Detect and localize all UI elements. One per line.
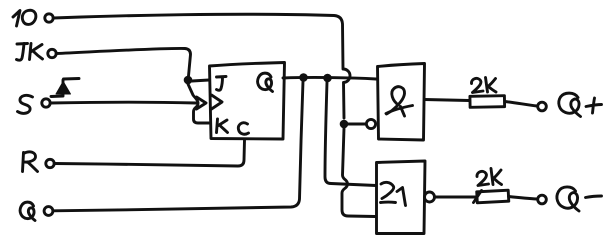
wire node A down to OR lower input (hops over OR upper wire) [342,128,375,217]
resistor R2 [477,190,509,203]
label 2k (lower) [477,169,502,186]
wire Q terminal to Q-output junction [53,81,303,211]
edge-trigger symbol above S wire [51,79,79,97]
terminal R [46,159,54,167]
junction dot JK node [184,76,193,85]
label 2k (upper) [471,78,496,93]
terminal Q bottom [44,207,53,216]
AND gate & symbol [386,87,413,116]
wire 10 input to vertical drop (hops over Q line) [53,14,350,118]
flip-flop U1 box [210,63,285,140]
junction dot Q line 2 [323,74,332,83]
label Q output (bottom left) [20,202,35,220]
wire AND output to resistor R1 [425,100,470,101]
flip-flop label K [217,119,228,133]
resistor R1 [470,96,505,108]
flip-flop dynamic clock chevron [212,95,223,109]
label Q+ [559,93,602,116]
wire R1 to terminal Q+ [505,102,537,107]
wire JK input to junction [56,48,190,76]
terminal JK [48,49,56,57]
label R [23,152,38,172]
terminal S [42,99,50,107]
wire R to flip-flop C input [54,140,244,166]
terminal 10 [45,14,53,22]
wire junction to J input [192,80,209,81]
label JK [17,44,43,61]
wire S to clock input [50,101,196,105]
junction dot node A (10 line to AND/OR) [340,120,349,129]
AND gate inverted input bubble [366,119,375,128]
junction dot Q line 1 [299,73,308,82]
terminal Q- [538,195,547,204]
OR gate U3 box [377,161,426,234]
flip-flop label J [217,77,227,91]
wire junction 2 down to OR upper input [325,82,376,186]
wire R2 to terminal Q- [509,197,538,200]
flip-flop Q output wire to AND top input [283,77,376,79]
clock wedge at wire end [197,97,207,109]
label Q- [557,187,602,211]
wire junction to K input (hops over S wire) [188,84,209,123]
OR gate >=1 symbol [381,182,406,205]
flip-flop label C [238,123,248,134]
label 10 [13,10,36,26]
label S [18,95,33,113]
flip-flop label Q [258,73,273,91]
wire OR output to resistor R2 [435,196,477,199]
resistor R2 left overshoot tick [474,191,482,203]
terminal Q+ [538,102,547,111]
AND gate U2 box [378,64,425,141]
OR gate output bubble [425,192,435,202]
wire node A to AND bubble [348,123,366,126]
